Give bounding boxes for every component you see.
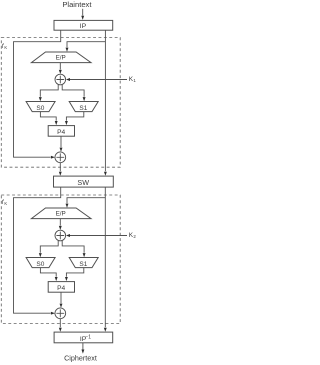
wire S0 to P4 round 1 [40, 112, 56, 121]
wire left half jog + left rail round 2 into XOR [14, 187, 61, 313]
wire left half jog + left rail round 1 into XOR [14, 30, 61, 157]
svg-text:S0: S0 [36, 105, 44, 112]
wire E/P output round 1 [59, 63, 61, 70]
wire K2 line [69, 235, 128, 237]
wire K1 line [69, 79, 128, 81]
wire right rail round 1 (IP to SW) [104, 30, 106, 171]
svg-text:E/P: E/P [56, 54, 66, 61]
dashed box fK round 1 [1, 38, 120, 168]
wire split to S1 round 1 [62, 85, 84, 97]
block E/P round 2 [31, 208, 91, 219]
xor output circle round 1 [55, 152, 66, 163]
wire plaintext input arrow [82, 9, 84, 16]
block S1 round 1 [69, 102, 98, 112]
block S0 round 1 [26, 102, 55, 112]
svg-text:P4: P4 [57, 129, 65, 136]
wire split to S1 round 2 [62, 241, 84, 253]
svg-text:Ciphertext: Ciphertext [64, 353, 97, 362]
block IP inverse [54, 332, 113, 343]
block P4 round 2 [48, 282, 74, 293]
svg-text:E/P: E/P [56, 210, 66, 217]
svg-text:IP: IP [80, 23, 87, 30]
block S1 round 2 [69, 258, 98, 268]
xor output circle round 2 [55, 308, 66, 319]
dashed box fK round 2 [1, 195, 120, 324]
wire ciphertext output arrow [82, 343, 84, 350]
svg-text:S0: S0 [36, 261, 44, 268]
wire P4 output round 2 [60, 292, 62, 303]
svg-text:S1: S1 [79, 105, 87, 112]
wire S1 to P4 round 1 [66, 112, 83, 121]
svg-text:K: K [4, 45, 7, 50]
svg-text:1: 1 [133, 78, 136, 83]
wire E/P feed from right rail round 1 [67, 42, 105, 48]
wire S0 to P4 round 2 [40, 268, 56, 277]
svg-text:SW: SW [77, 178, 89, 187]
xor K2 circle round 2 [55, 230, 66, 241]
wire E/P feed from right rail round 2 [67, 198, 105, 204]
svg-text:2: 2 [133, 234, 136, 239]
wire XOR output to SW [59, 163, 61, 172]
wire P4 output round 1 [60, 136, 62, 147]
wire S1 to P4 round 2 [66, 268, 83, 277]
block P4 round 1 [48, 126, 74, 137]
svg-text:K: K [4, 201, 7, 206]
block E/P round 1 [31, 52, 91, 63]
block S0 round 2 [26, 258, 55, 268]
wire right rail round 2 (SW to IP inverse) [104, 187, 106, 327]
svg-text:S1: S1 [79, 261, 87, 268]
wire split to S0 round 1 [40, 85, 58, 97]
xor K1 circle round 1 [55, 74, 66, 85]
svg-text:−1: −1 [85, 334, 91, 340]
block IP [54, 20, 113, 30]
wire split to S0 round 2 [40, 241, 58, 253]
block SW [54, 176, 114, 187]
wire E/P output round 2 [59, 219, 61, 226]
wire XOR output to IP inverse [59, 319, 61, 328]
svg-text:Plaintext: Plaintext [62, 0, 92, 9]
svg-text:P4: P4 [57, 285, 65, 292]
